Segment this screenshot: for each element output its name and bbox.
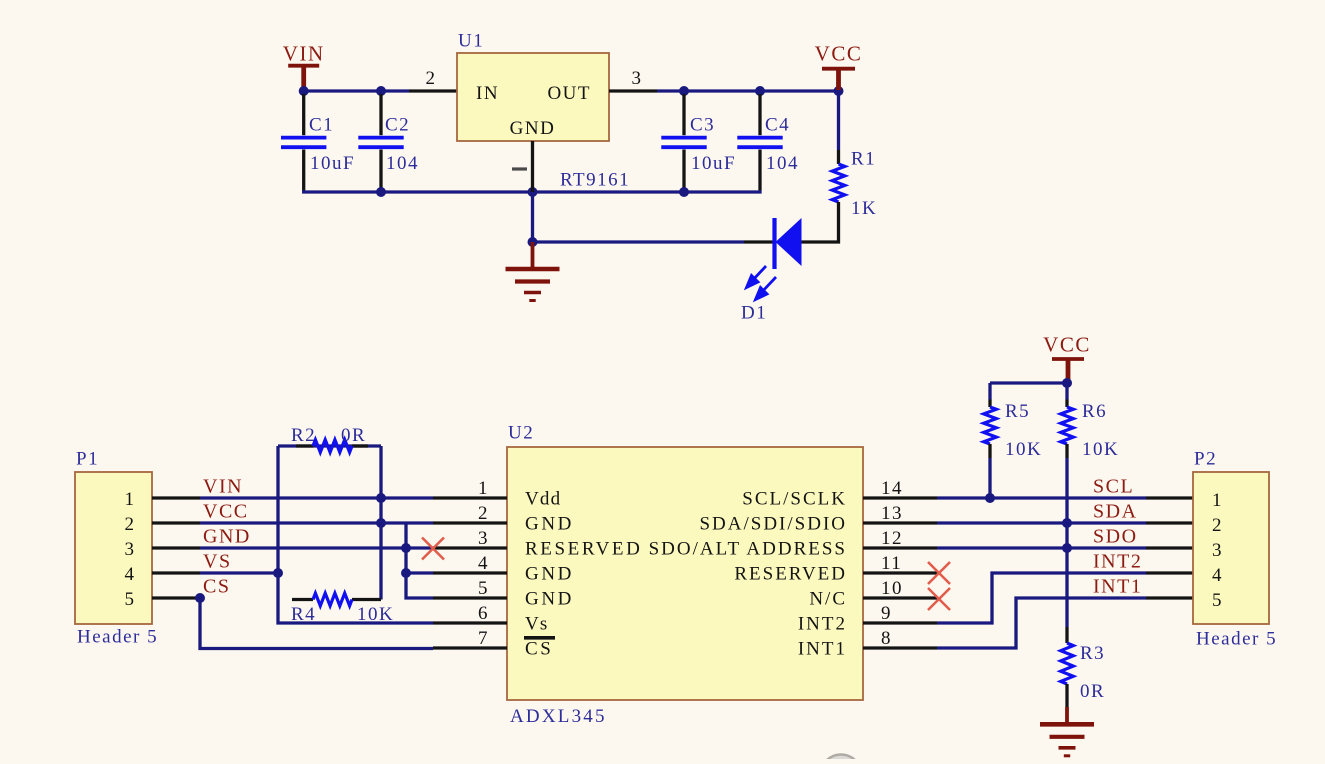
svg-text:IN: IN (476, 83, 499, 104)
no-connect X pin 10 (928, 588, 950, 610)
node SDO-R3 junction (1062, 543, 1072, 553)
svg-text:8: 8 (881, 628, 892, 649)
connector P2 Header 5 (1193, 472, 1269, 624)
svg-text:0R: 0R (1080, 681, 1105, 702)
wire GND drop (531, 192, 534, 242)
svg-text:INT1: INT1 (798, 639, 847, 660)
svg-text:1: 1 (1212, 490, 1223, 511)
svg-text:R5: R5 (1005, 401, 1030, 422)
U2 pin 3 line (433, 546, 507, 549)
wire SDA row (937, 521, 1146, 524)
svg-text:5: 5 (1212, 590, 1223, 611)
svg-text:0R: 0R (341, 425, 366, 446)
svg-text:CS: CS (525, 639, 553, 660)
svg-text:GND: GND (525, 564, 574, 585)
capacitor C4 104 (758, 94, 761, 135)
svg-text:R4: R4 (291, 604, 316, 625)
svg-text:INT2: INT2 (1093, 551, 1142, 573)
ground symbol top (531, 242, 535, 267)
wire VCC to R5 (990, 381, 1067, 384)
svg-text:R2: R2 (291, 425, 316, 446)
node VIN junction (299, 86, 309, 96)
wire VIN row (200, 496, 433, 499)
svg-text:C2: C2 (385, 115, 410, 136)
U2 pin 2 line (433, 521, 507, 524)
wire INT1 jog (937, 598, 1146, 648)
U1 GND pin (531, 141, 534, 192)
svg-text:RESERVED: RESERVED (734, 564, 847, 585)
svg-text:C4: C4 (765, 115, 790, 136)
svg-text:VIN: VIN (203, 476, 243, 498)
svg-text:5: 5 (125, 589, 136, 610)
node VS junction (273, 568, 283, 578)
no-connect X pin 11 (928, 562, 950, 584)
resistor R6 10K (1065, 383, 1068, 400)
svg-text:INT1: INT1 (1093, 576, 1142, 598)
P1 pin 4 (152, 571, 200, 574)
svg-text:Vdd: Vdd (525, 489, 561, 510)
power symbol VCC top (822, 67, 855, 71)
svg-text:R3: R3 (1080, 643, 1105, 664)
capacitor C1 10uF (302, 94, 305, 135)
U2 pin CS overbar (524, 636, 555, 640)
node VIN-R2 junction (376, 493, 386, 503)
svg-text:10K: 10K (1005, 439, 1042, 460)
svg-text:9: 9 (881, 603, 892, 624)
P2 pin 5 (1146, 596, 1193, 599)
resistor R5 10K (988, 383, 991, 400)
node C3 top junction (679, 86, 689, 96)
P1 pin 2 (152, 521, 200, 524)
svg-text:D1: D1 (741, 303, 767, 324)
capacitor C2 104 (379, 94, 382, 135)
svg-text:P1: P1 (76, 449, 99, 470)
svg-text:6: 6 (478, 603, 489, 624)
node SCL-R5 junction (985, 493, 995, 503)
svg-text:10: 10 (881, 578, 903, 599)
U2 pin 10 line (863, 596, 937, 599)
svg-text:C3: C3 (690, 115, 715, 136)
node stub-VS junction (401, 568, 411, 578)
svg-text:GND: GND (525, 589, 574, 610)
svg-text:104: 104 (766, 153, 799, 174)
svg-text:10K: 10K (1082, 439, 1119, 460)
wire SDO row (937, 546, 1146, 549)
wire U1 OUT to VCC (657, 89, 839, 92)
wire GND row (200, 546, 433, 549)
svg-text:U2: U2 (508, 423, 534, 444)
node C2 top junction (376, 86, 386, 96)
svg-text:4: 4 (1212, 565, 1223, 586)
svg-text:13: 13 (881, 503, 903, 524)
svg-text:4: 4 (125, 564, 136, 585)
wire R2 right vertical (379, 446, 382, 600)
svg-text:SCL: SCL (1093, 476, 1134, 498)
U2 pin 13 line (863, 521, 937, 524)
resistor R3 0R (1065, 627, 1068, 643)
wire VIN rail to U1 IN (304, 89, 409, 92)
svg-text:N/C: N/C (809, 589, 847, 610)
connector P1 Header 5 (75, 472, 152, 624)
node C3 bottom junction (679, 187, 689, 197)
svg-text:SDA/SDI/SDIO: SDA/SDI/SDIO (699, 514, 847, 535)
svg-text:3: 3 (478, 528, 489, 549)
op-amp U2 ADXL345 body (507, 447, 863, 700)
P2 pin 2 (1146, 521, 1193, 524)
power symbol VCC bottom (1052, 357, 1084, 361)
P2 pin 3 (1146, 546, 1193, 549)
svg-text:OUT: OUT (547, 83, 591, 104)
svg-text:SCL/SCLK: SCL/SCLK (742, 489, 847, 510)
svg-text:5: 5 (478, 578, 489, 599)
node C2 bottom junction (376, 187, 386, 197)
svg-text:ADXL345: ADXL345 (510, 706, 607, 727)
svg-text:1: 1 (125, 489, 136, 510)
U2 pin 4 line (433, 571, 507, 574)
svg-text:VCC: VCC (1043, 333, 1091, 357)
svg-text:3: 3 (1212, 540, 1223, 561)
U2 pin 5 line (433, 596, 507, 599)
node VCC-R4 junction (376, 518, 386, 528)
svg-text:Header 5: Header 5 (1196, 629, 1277, 650)
diode D1 LED (744, 240, 776, 243)
svg-text:R1: R1 (851, 149, 876, 170)
node CS junction (195, 593, 205, 603)
svg-text:14: 14 (881, 478, 903, 499)
capacitor C3 10uF (682, 94, 685, 135)
svg-text:12: 12 (881, 528, 903, 549)
svg-text:GND: GND (525, 514, 574, 535)
node C4 top junction (755, 86, 765, 96)
op-amp U1 regulator body (457, 53, 609, 141)
svg-text:GND: GND (203, 526, 251, 548)
svg-text:104: 104 (386, 153, 419, 174)
wire SCL row (937, 496, 1146, 499)
svg-text:GND: GND (510, 118, 556, 139)
svg-text:10K: 10K (357, 604, 394, 625)
svg-text:Vs: Vs (525, 614, 549, 635)
node VCC junction (834, 86, 844, 96)
resistor R4 10K (292, 598, 313, 601)
svg-text:INT2: INT2 (798, 614, 847, 635)
P1 pin 5 (152, 596, 200, 599)
wire CS jog (200, 598, 433, 649)
node U1 GND junction (528, 187, 538, 197)
no-connect X pin 3 (422, 538, 444, 560)
resistor R2 0R (278, 444, 381, 447)
svg-text:P2: P2 (1194, 449, 1217, 470)
P2 pin 1 (1146, 496, 1193, 499)
U2 pin 11 line (863, 571, 937, 574)
svg-text:SDO/ALT ADDRESS: SDO/ALT ADDRESS (649, 539, 847, 560)
U2 pin 14 line (863, 496, 937, 499)
U2 pin 6 line (433, 621, 507, 624)
wire VCC row (200, 521, 433, 524)
wire R2 left vertical to Vs pin (278, 446, 433, 623)
node SDA-R6 junction (1062, 518, 1072, 528)
svg-text:7: 7 (478, 628, 489, 649)
svg-text:2: 2 (1212, 515, 1223, 536)
svg-text:3: 3 (632, 68, 643, 89)
svg-text:U1: U1 (458, 31, 484, 52)
P1 pin 3 (152, 546, 200, 549)
svg-text:1: 1 (478, 478, 489, 499)
svg-text:4: 4 (478, 553, 489, 574)
P1 pin 1 (152, 496, 200, 499)
node LED rail junction (528, 237, 538, 247)
U2 pin 7 line (433, 646, 507, 649)
svg-text:C1: C1 (309, 115, 334, 136)
svg-text:SDO: SDO (1093, 526, 1138, 548)
svg-text:2: 2 (478, 503, 489, 524)
U1 pin 3 OUT (609, 89, 657, 92)
U2 pin 12 line (863, 546, 937, 549)
P2 pin 4 (1146, 571, 1193, 574)
svg-text:VS: VS (203, 551, 232, 573)
U1 pin 2 IN (409, 89, 457, 92)
svg-text:11: 11 (881, 553, 902, 574)
svg-text:10uF: 10uF (310, 153, 355, 174)
svg-text:CS: CS (203, 576, 230, 598)
svg-text:2: 2 (125, 514, 136, 535)
node VCC-R6 junction (1062, 378, 1072, 388)
U2 pin 8 line (863, 646, 937, 649)
svg-text:RESERVED: RESERVED (525, 539, 642, 560)
watermark circle (821, 755, 862, 764)
node GND vertical junction (401, 543, 411, 553)
svg-text:3: 3 (125, 539, 136, 560)
svg-text:R6: R6 (1082, 401, 1107, 422)
svg-text:VCC: VCC (203, 501, 249, 523)
U2 pin 1 line (433, 496, 507, 499)
svg-text:VCC: VCC (815, 42, 863, 66)
wire INT2 jog (937, 573, 1146, 623)
svg-text:10uF: 10uF (691, 153, 736, 174)
svg-text:RT9161: RT9161 (560, 170, 630, 191)
ground symbol bottom (1065, 707, 1069, 722)
svg-text:1K: 1K (851, 198, 877, 219)
wire U2 ground stub vertical (406, 523, 433, 598)
wire VS row (200, 571, 278, 574)
wire U2 pin4 stub (406, 571, 433, 574)
resistor R1 1K (837, 91, 840, 150)
svg-text:2: 2 (426, 68, 437, 89)
wire LED rail (533, 240, 745, 243)
svg-text:Header 5: Header 5 (77, 627, 158, 648)
svg-text:SDA: SDA (1093, 501, 1138, 523)
svg-text:VIN: VIN (283, 42, 325, 66)
wire ground rail (304, 190, 760, 192)
U2 pin 9 line (863, 621, 937, 624)
power symbol VIN (288, 64, 319, 68)
